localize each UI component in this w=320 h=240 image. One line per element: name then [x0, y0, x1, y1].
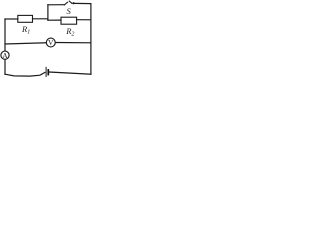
switch S right contact stroke	[69, 1, 72, 3]
wire R2 row left stub	[48, 19, 61, 21]
wire bottom left (corner to battery)	[5, 72, 45, 76]
voltmeter V circle	[46, 38, 55, 47]
ammeter A circle	[1, 51, 9, 59]
battery long plate	[45, 67, 47, 77]
wire right vertical	[90, 4, 92, 75]
wire left vertical (ammeter to bottom-left corner)	[4, 60, 6, 75]
wire R2 to right vertical	[77, 19, 91, 21]
wire R1 row left stub	[5, 18, 18, 20]
wire left vertical (top-left corner down to ammeter)	[4, 19, 6, 51]
svg-text:V: V	[48, 38, 54, 47]
wire switch branch left segment	[48, 4, 64, 6]
switch S right terminal dot	[72, 2, 74, 4]
wire middle row right (voltmeter to right vertical)	[56, 42, 91, 44]
svg-text:A: A	[2, 51, 8, 60]
battery short plate	[47, 69, 49, 75]
wire middle row left (junction to voltmeter)	[5, 43, 46, 44]
wire switch branch right segment	[75, 2, 91, 4]
wire bottom right (battery to corner)	[49, 72, 91, 74]
switch S blade	[64, 2, 67, 5]
wire junction vertical node A	[47, 5, 49, 20]
resistor R1	[18, 15, 33, 22]
resistor R2	[61, 17, 77, 24]
wire R1 to junction	[33, 18, 48, 20]
